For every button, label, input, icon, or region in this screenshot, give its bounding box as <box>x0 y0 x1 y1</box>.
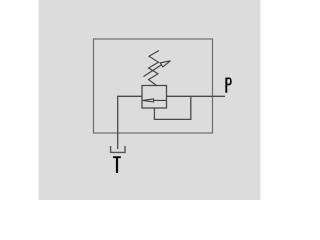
adjustment arrow head <box>160 61 170 67</box>
port label P <box>226 78 231 93</box>
wire: right port line to P <box>167 95 226 97</box>
internal flow path arrow (points left) <box>142 99 166 102</box>
adjustment arrow shaft <box>144 65 163 77</box>
valve body square <box>142 86 167 109</box>
gray drawing panel <box>39 0 261 200</box>
spring (zigzag) <box>149 51 160 86</box>
wire: pilot line loop <box>154 96 190 119</box>
tank symbol <box>111 146 125 152</box>
wire: left port line <box>118 96 142 149</box>
port label T <box>113 157 121 173</box>
enclosure (component boundary box) <box>94 39 213 133</box>
